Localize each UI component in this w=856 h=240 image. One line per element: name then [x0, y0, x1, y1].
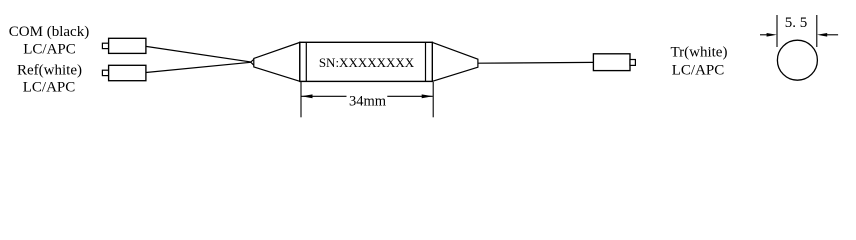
diameter arrow left tail	[760, 34, 767, 36]
diameter extension line left	[776, 15, 778, 47]
svg-text:LC/APC: LC/APC	[23, 80, 76, 96]
diameter arrowhead left	[767, 33, 777, 37]
svg-text:COM (black): COM (black)	[9, 24, 89, 40]
left taper cone	[254, 42, 300, 81]
connector COM boot	[102, 43, 108, 48]
fiber cross-section circle	[777, 40, 817, 80]
dimension arrowhead left	[301, 94, 312, 98]
dimension arrowhead right	[422, 94, 433, 98]
connector Tr boot	[630, 60, 635, 66]
svg-text:LC/APC: LC/APC	[23, 42, 76, 58]
svg-text:Ref(white): Ref(white)	[17, 63, 82, 79]
svg-text:LC/APC: LC/APC	[672, 62, 725, 78]
diameter arrow right tail	[827, 34, 838, 36]
wire COM fiber to taper tip	[146, 46, 254, 65]
svg-text:SN:XXXXXXXX: SN:XXXXXXXX	[319, 55, 415, 70]
connector COM body	[109, 38, 146, 53]
wire Tr fiber	[478, 61, 594, 64]
connector Ref body	[109, 65, 146, 80]
right taper cone	[432, 42, 478, 81]
dimension line right segment	[387, 95, 432, 97]
dimension extension line right (34mm)	[432, 82, 434, 117]
wire Ref fiber to taper tip	[146, 59, 254, 72]
connector Ref boot	[102, 70, 108, 75]
body left end cap line	[305, 42, 307, 81]
svg-text:5. 5: 5. 5	[785, 15, 808, 31]
coupler body	[300, 42, 433, 81]
svg-text:Tr(white): Tr(white)	[671, 45, 728, 61]
diameter arrowhead right	[817, 33, 827, 37]
connector Tr body	[593, 54, 630, 71]
svg-text:34mm: 34mm	[349, 94, 387, 110]
body right end cap line	[425, 42, 427, 81]
dimension extension line left (34mm)	[300, 82, 302, 117]
dimension line left segment	[302, 95, 347, 97]
diameter extension line right	[816, 15, 818, 47]
